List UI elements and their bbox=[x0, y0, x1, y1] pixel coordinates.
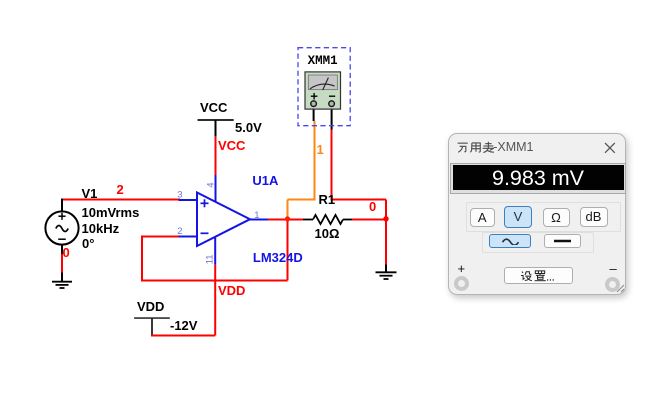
svg-text:3: 3 bbox=[177, 190, 182, 201]
svg-text:1: 1 bbox=[254, 210, 259, 221]
svg-text:2: 2 bbox=[177, 226, 182, 237]
svg-text:4: 4 bbox=[205, 183, 216, 188]
svg-text:11: 11 bbox=[205, 254, 216, 264]
